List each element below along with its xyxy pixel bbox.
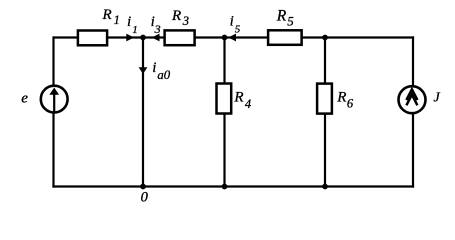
voltage source e arrowhead [49, 88, 59, 95]
node dot bottom B [222, 184, 228, 190]
resistor R4 [217, 84, 232, 114]
svg-text:R: R [336, 89, 346, 105]
node dot top C [322, 35, 328, 41]
current source J upper chevron [406, 89, 417, 100]
voltage source e circle [41, 86, 68, 113]
wire top rail left segment [54, 36, 80, 38]
node dot top B [222, 35, 228, 41]
svg-text:1: 1 [114, 13, 120, 27]
svg-text:5: 5 [287, 14, 294, 29]
svg-text:1: 1 [132, 24, 138, 36]
wire branch R6 [324, 38, 326, 187]
wire branch R4 [223, 38, 225, 187]
wire bottom rail [52, 185, 414, 187]
svg-text:R: R [233, 89, 243, 105]
svg-text:J: J [434, 91, 441, 106]
svg-text:5: 5 [235, 24, 241, 36]
current arrow i1 [126, 34, 134, 42]
svg-text:4: 4 [245, 97, 251, 111]
resistor R5 [268, 30, 302, 45]
wire middle branch ia0 [142, 38, 144, 187]
svg-text:3: 3 [182, 14, 189, 28]
wire top rail R1 to R3 [107, 36, 165, 38]
node dot bottom C [322, 184, 328, 190]
current source J lower chevron [406, 95, 417, 106]
resistor R3 [165, 30, 195, 45]
svg-text:e: e [21, 91, 28, 107]
resistor R6 [317, 84, 332, 114]
svg-text:i: i [127, 14, 131, 30]
node dot top A [140, 35, 146, 41]
voltage source e arrow shaft [53, 92, 55, 112]
current arrow i3 [152, 34, 160, 42]
current arrow ia0 [139, 67, 148, 74]
svg-text:3: 3 [154, 22, 161, 36]
svg-text:i: i [152, 60, 156, 76]
resistor R1 [78, 31, 107, 46]
svg-text:R: R [171, 8, 181, 24]
svg-text:R: R [102, 7, 112, 23]
wire right vertical [412, 36, 414, 187]
wire top rail R5 to right corner [301, 36, 414, 38]
wire top rail R3 to R5 [195, 36, 270, 38]
svg-text:R: R [276, 8, 287, 25]
svg-text:a0: a0 [157, 68, 170, 82]
svg-text:6: 6 [347, 97, 354, 111]
current arrow i5 [228, 34, 236, 42]
wire left vertical [52, 36, 54, 187]
node dot bottom A [140, 184, 146, 190]
svg-text:i: i [230, 13, 234, 29]
current source J circle [399, 86, 426, 113]
svg-text:0: 0 [141, 190, 149, 206]
